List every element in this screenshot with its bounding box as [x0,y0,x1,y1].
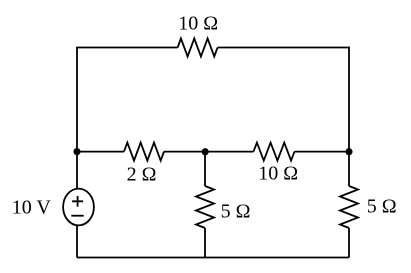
wire middle center [164,151,254,153]
wire top-left segment [77,48,178,190]
wire top-right segment [218,48,349,152]
resistor R5 5 ohm right [340,186,358,228]
svg-text:10 Ω: 10 Ω [178,13,218,35]
wire middle left [77,151,124,153]
svg-text:5 Ω: 5 Ω [367,196,397,218]
node A left junction [73,148,80,155]
voltage source plus sign [72,196,83,207]
wire bottom [77,257,349,259]
wire middle vertical lower [204,228,206,258]
resistor R3 10 ohm middle [254,143,295,161]
svg-text:5 Ω: 5 Ω [221,201,251,223]
wire right vertical upper [348,152,350,186]
voltage source V1 circle [63,189,94,226]
wire right vertical lower [348,228,350,258]
svg-text:2 Ω: 2 Ω [127,164,157,186]
wire source bottom lead [76,225,78,257]
wire middle vertical upper [204,152,206,186]
resistor R4 5 ohm middle [196,186,214,228]
svg-text:10 V: 10 V [12,197,52,219]
resistor R1 10 ohm top [178,39,218,57]
node B middle junction [202,148,209,155]
resistor R2 2 ohm [124,143,164,161]
wire middle right [295,151,350,153]
node C right junction [345,148,352,155]
voltage source minus sign [71,215,83,217]
svg-text:10 Ω: 10 Ω [258,163,298,185]
